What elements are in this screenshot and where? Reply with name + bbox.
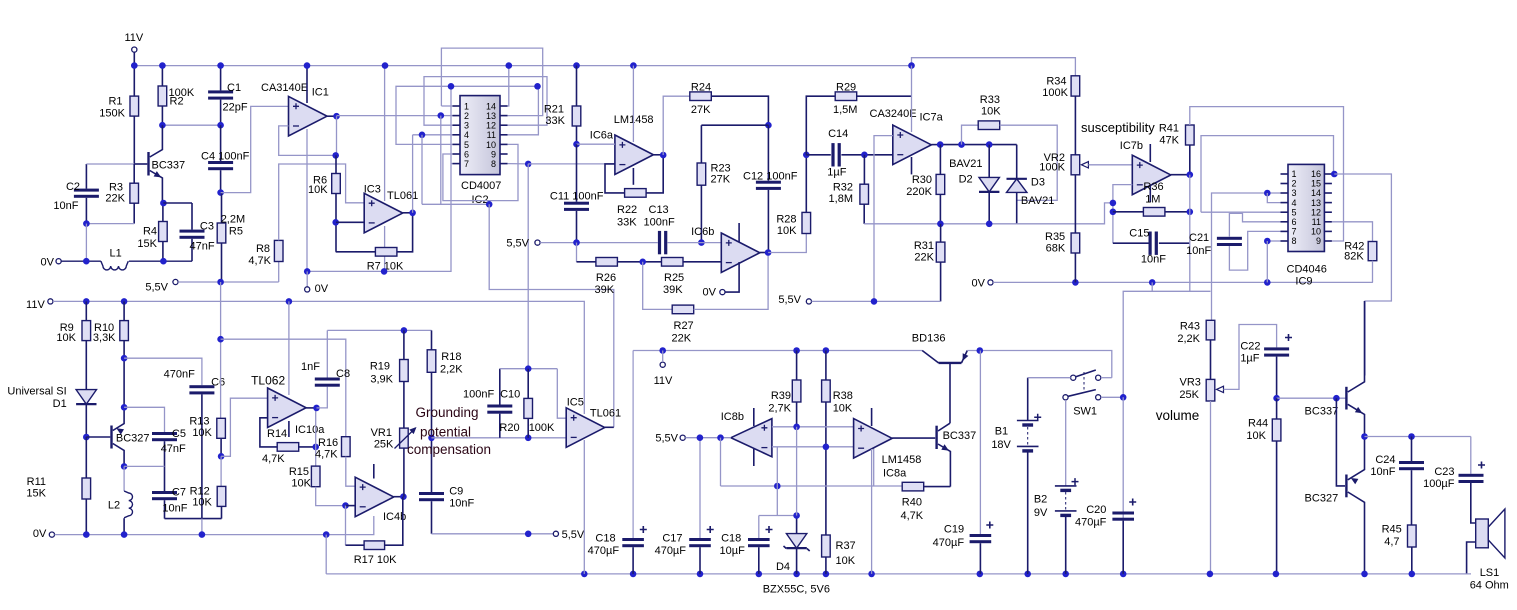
svg-text:2: 2 [464,111,469,121]
svg-text:2,7K: 2,7K [768,403,791,415]
svg-text:R13: R13 [189,415,209,427]
svg-text:C4 100nF: C4 100nF [201,151,250,163]
svg-text:100nF: 100nF [644,216,675,228]
svg-text:R27: R27 [674,320,694,332]
svg-text:14: 14 [486,101,496,111]
svg-text:CA3140E: CA3140E [261,82,308,94]
svg-text:1: 1 [464,101,469,111]
svg-text:IC7b: IC7b [1120,140,1143,152]
svg-text:5,5V: 5,5V [145,282,168,294]
svg-text:C19: C19 [944,524,964,536]
svg-text:C20: C20 [1086,504,1106,516]
svg-text:R31: R31 [914,240,934,252]
svg-text:13: 13 [1311,198,1321,208]
svg-text:IC1: IC1 [312,87,329,99]
svg-text:1nF: 1nF [301,361,320,373]
svg-text:R38: R38 [833,390,853,402]
svg-text:BC327: BC327 [116,433,150,445]
svg-text:TL062: TL062 [251,374,285,388]
svg-text:C1: C1 [227,82,241,94]
svg-text:11V: 11V [654,375,673,387]
svg-text:6: 6 [464,149,469,159]
svg-text:64 Ohm: 64 Ohm [1470,580,1509,592]
svg-text:R39: R39 [771,390,791,402]
svg-text:R44: R44 [1248,418,1268,430]
svg-text:R22: R22 [617,204,637,216]
svg-text:47K: 47K [1159,134,1179,146]
svg-text:10nF: 10nF [449,497,474,509]
svg-text:100K: 100K [529,422,555,434]
svg-text:R32: R32 [833,182,853,194]
svg-text:IC7a: IC7a [920,112,944,124]
svg-text:3,9K: 3,9K [370,373,393,385]
svg-text:15: 15 [1311,179,1321,189]
svg-text:C5: C5 [172,428,186,440]
svg-text:IC3: IC3 [364,183,381,195]
svg-text:C6: C6 [211,377,225,389]
svg-text:R14: R14 [267,428,287,440]
svg-text:0V: 0V [41,257,55,269]
svg-text:14: 14 [1311,188,1321,198]
svg-text:100K: 100K [1042,87,1068,99]
svg-text:8: 8 [1292,236,1297,246]
svg-text:5,5V: 5,5V [778,294,801,306]
svg-text:10K: 10K [777,225,797,237]
svg-text:10K: 10K [192,427,212,439]
svg-text:1,8M: 1,8M [829,193,853,205]
svg-text:C2: C2 [66,181,80,193]
svg-text:10K: 10K [308,184,328,196]
svg-text:16: 16 [1311,169,1321,179]
svg-text:15K: 15K [26,487,46,499]
svg-text:18V: 18V [991,439,1011,451]
svg-text:C18: C18 [721,533,741,545]
svg-text:5: 5 [1292,207,1297,217]
svg-text:IC6a: IC6a [590,130,614,142]
svg-text:4,7: 4,7 [1384,536,1399,548]
svg-text:9V: 9V [1034,507,1048,519]
svg-text:C15: C15 [1129,228,1149,240]
svg-text:22K: 22K [914,252,934,264]
svg-text:R34: R34 [1046,76,1066,88]
svg-text:3,3K: 3,3K [93,332,116,344]
svg-text:10: 10 [1311,227,1321,237]
svg-text:C23: C23 [1434,466,1454,478]
svg-text:470µF: 470µF [655,545,687,557]
svg-text:IC8b: IC8b [721,411,744,423]
svg-text:6: 6 [1292,217,1297,227]
svg-text:R40: R40 [902,496,922,508]
svg-text:C13: C13 [649,204,669,216]
svg-text:D1: D1 [53,398,67,410]
svg-text:Grounding: Grounding [416,405,479,420]
svg-text:39K: 39K [595,284,615,296]
svg-text:470µF: 470µF [1075,516,1107,528]
svg-text:R45: R45 [1382,524,1402,536]
svg-text:R29: R29 [836,82,856,94]
svg-text:CD4007: CD4007 [461,180,501,192]
svg-text:4,7K: 4,7K [262,453,285,465]
svg-text:12: 12 [486,121,496,131]
svg-text:R28: R28 [776,214,796,226]
svg-text:150K: 150K [99,108,125,120]
svg-text:susceptibility: susceptibility [1081,120,1155,135]
svg-text:R4: R4 [143,226,157,238]
svg-text:D4: D4 [776,561,790,573]
svg-text:TL061: TL061 [590,407,621,419]
svg-text:C14: C14 [828,128,848,140]
svg-text:B1: B1 [995,425,1008,437]
svg-text:R25: R25 [664,272,684,284]
svg-text:C12 100nF: C12 100nF [743,171,798,183]
svg-text:C21: C21 [1189,232,1209,244]
svg-text:10K: 10K [981,105,1001,117]
svg-text:R18: R18 [441,351,461,363]
svg-text:C24: C24 [1375,454,1395,466]
svg-text:22pF: 22pF [223,102,248,114]
svg-text:R1: R1 [108,96,122,108]
svg-text:9: 9 [491,149,496,159]
svg-text:470µF: 470µF [933,537,965,549]
svg-text:SW1: SW1 [1073,405,1097,417]
svg-text:11V: 11V [125,32,144,44]
svg-text:R11: R11 [27,476,46,488]
svg-text:4,7K: 4,7K [315,448,338,460]
svg-text:C11 100nF: C11 100nF [550,190,604,202]
svg-text:15K: 15K [137,238,157,250]
svg-text:D2: D2 [959,174,973,186]
svg-text:100nF: 100nF [463,388,494,400]
svg-text:L1: L1 [110,248,122,260]
svg-text:0V: 0V [33,528,47,540]
svg-text:22K: 22K [672,333,692,345]
svg-text:47nF: 47nF [190,241,215,253]
svg-text:BAV21: BAV21 [1021,195,1054,207]
svg-text:R26: R26 [596,272,616,284]
svg-text:4: 4 [1292,198,1297,208]
svg-text:R19: R19 [370,361,390,373]
svg-text:R36: R36 [1143,181,1163,193]
svg-text:C9: C9 [449,486,463,498]
svg-text:compensation: compensation [407,442,491,457]
svg-text:27K: 27K [691,104,711,116]
svg-text:R35: R35 [1045,231,1065,243]
svg-text:B2: B2 [1034,494,1047,506]
svg-text:CD4046: CD4046 [1287,263,1327,275]
svg-text:R21: R21 [544,104,564,116]
svg-text:33K: 33K [545,115,565,127]
svg-text:R43: R43 [1180,321,1200,333]
svg-text:C3: C3 [200,221,214,233]
svg-text:L2: L2 [108,499,120,511]
svg-text:VR3: VR3 [1179,377,1200,389]
svg-text:VR1: VR1 [371,427,392,439]
svg-text:7: 7 [1292,227,1297,237]
svg-text:2: 2 [1292,179,1297,189]
svg-text:BC337: BC337 [943,430,977,442]
svg-text:BD136: BD136 [912,333,946,345]
svg-text:1µF: 1µF [1240,353,1259,365]
svg-text:10nF: 10nF [162,502,187,514]
svg-text:C10: C10 [500,388,520,400]
svg-text:C17: C17 [662,533,682,545]
svg-text:volume: volume [1156,408,1200,423]
svg-text:D3: D3 [1031,177,1045,189]
svg-text:IC10a: IC10a [295,424,325,436]
svg-text:82K: 82K [1344,251,1364,263]
svg-text:IC9: IC9 [1295,276,1312,288]
svg-text:R16: R16 [318,437,338,449]
svg-text:0V: 0V [315,283,329,295]
svg-text:5,5V: 5,5V [506,238,529,250]
svg-text:TL061: TL061 [387,190,418,202]
svg-text:4,7K: 4,7K [248,255,271,267]
svg-text:7: 7 [464,159,469,169]
svg-text:R5: R5 [229,226,243,238]
svg-text:470µF: 470µF [588,545,620,557]
svg-text:LM1458: LM1458 [882,454,922,466]
svg-text:R17 10K: R17 10K [354,554,397,566]
svg-text:R12: R12 [190,485,210,497]
svg-text:5: 5 [464,140,469,150]
svg-text:27K: 27K [711,174,731,186]
svg-text:C18: C18 [595,533,615,545]
svg-text:R30: R30 [912,174,932,186]
svg-text:13: 13 [486,111,496,121]
svg-text:10K: 10K [1246,430,1266,442]
svg-text:8: 8 [491,159,496,169]
svg-text:11: 11 [487,130,496,140]
svg-text:BC337: BC337 [152,160,186,172]
svg-text:C8: C8 [336,368,350,380]
svg-text:11V: 11V [26,299,45,311]
svg-text:CA3240E: CA3240E [870,108,917,120]
svg-text:3: 3 [464,121,469,131]
svg-text:R37: R37 [836,540,856,552]
svg-text:10K: 10K [833,403,853,415]
svg-text:47nF: 47nF [161,443,186,455]
svg-text:4: 4 [464,130,469,140]
svg-text:10nF: 10nF [1370,466,1395,478]
svg-text:39K: 39K [663,284,683,296]
svg-text:1M: 1M [1145,194,1160,206]
svg-text:BZX55C, 5V6: BZX55C, 5V6 [763,584,830,596]
svg-text:68K: 68K [1046,242,1066,254]
svg-text:10nF: 10nF [1186,245,1211,257]
svg-text:1,5M: 1,5M [833,104,857,116]
svg-text:10µF: 10µF [720,545,746,557]
svg-text:100K: 100K [1039,162,1065,174]
svg-text:LS1: LS1 [1480,567,1500,579]
svg-text:25K: 25K [374,438,394,450]
svg-text:R2: R2 [170,96,184,108]
svg-text:5,5V: 5,5V [655,433,678,445]
svg-text:12: 12 [1311,207,1321,217]
svg-text:BC327: BC327 [1305,493,1339,505]
svg-text:C22: C22 [1240,340,1260,352]
svg-text:2,2M: 2,2M [221,214,245,226]
svg-text:4,7K: 4,7K [901,510,924,522]
svg-text:C7: C7 [172,487,186,499]
svg-text:25K: 25K [1179,389,1199,401]
svg-text:100µF: 100µF [1423,478,1455,490]
svg-text:IC6b: IC6b [691,226,714,238]
svg-text:Universal SI: Universal SI [7,386,66,398]
svg-text:11: 11 [1312,217,1321,227]
svg-text:10K: 10K [56,332,76,344]
svg-text:10K: 10K [291,477,311,489]
svg-text:R15: R15 [289,466,309,478]
svg-text:5,5V: 5,5V [562,529,585,541]
svg-text:470nF: 470nF [164,369,195,381]
svg-text:BAV21: BAV21 [949,158,982,170]
svg-text:0V: 0V [972,277,986,289]
svg-text:10: 10 [486,140,496,150]
svg-text:10K: 10K [192,497,212,509]
svg-text:2,2K: 2,2K [1177,333,1200,345]
svg-text:R20: R20 [499,422,519,434]
svg-text:1µF: 1µF [827,166,846,178]
svg-text:IC8a: IC8a [883,468,907,480]
svg-text:R8: R8 [256,243,270,255]
svg-text:33K: 33K [617,216,637,228]
svg-text:BC337: BC337 [1305,405,1339,417]
svg-text:10nF: 10nF [53,200,78,212]
svg-text:R24: R24 [691,82,711,94]
svg-text:R33: R33 [980,94,1000,106]
svg-text:1: 1 [1292,169,1297,179]
svg-text:3: 3 [1292,188,1297,198]
svg-text:22K: 22K [105,193,125,205]
svg-text:220K: 220K [906,186,932,198]
svg-text:2,2K: 2,2K [440,363,463,375]
svg-text:R41: R41 [1159,123,1179,135]
svg-text:10K: 10K [836,555,856,567]
svg-text:0V: 0V [703,286,717,298]
svg-text:IC5: IC5 [567,397,584,409]
svg-text:10nF: 10nF [1141,254,1166,266]
svg-text:9: 9 [1316,236,1321,246]
